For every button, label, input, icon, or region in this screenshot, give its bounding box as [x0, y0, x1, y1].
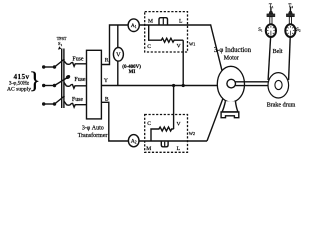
- svg-text:W2: W2: [189, 131, 195, 136]
- svg-text:A2: A2: [131, 139, 137, 145]
- svg-text:Belt: Belt: [273, 49, 283, 55]
- svg-text:Y: Y: [104, 78, 108, 84]
- svg-text:3-φ Induction: 3-φ Induction: [214, 47, 252, 54]
- svg-text:AC supply: AC supply: [7, 86, 31, 92]
- svg-text:R: R: [105, 58, 109, 64]
- svg-text:A1: A1: [131, 23, 137, 29]
- svg-text:}: }: [29, 68, 40, 93]
- svg-text:C: C: [147, 44, 151, 50]
- svg-text:S2: S2: [296, 28, 301, 33]
- svg-text:L: L: [179, 19, 183, 25]
- svg-text:MI: MI: [129, 70, 136, 75]
- svg-text:V: V: [177, 44, 181, 50]
- svg-text:M: M: [148, 19, 153, 25]
- svg-text:B: B: [105, 97, 109, 103]
- svg-text:S1: S1: [58, 41, 63, 47]
- svg-text:Fuse: Fuse: [74, 77, 86, 83]
- svg-text:V: V: [116, 52, 121, 59]
- svg-text:Motor: Motor: [224, 55, 239, 61]
- svg-text:Fuse: Fuse: [72, 97, 84, 103]
- svg-text:T2: T2: [288, 4, 293, 9]
- svg-text:Transformer: Transformer: [78, 132, 108, 139]
- svg-text:S1: S1: [258, 28, 263, 33]
- svg-text:Fuse: Fuse: [72, 57, 84, 63]
- svg-text:Brake drum: Brake drum: [267, 102, 296, 108]
- svg-text:M: M: [146, 146, 151, 152]
- svg-text:W1: W1: [189, 41, 195, 46]
- svg-text:C: C: [147, 121, 151, 127]
- svg-text:3-φ Auto: 3-φ Auto: [82, 125, 104, 131]
- svg-text:V: V: [177, 122, 181, 128]
- svg-text:L: L: [177, 146, 181, 152]
- svg-text:T1: T1: [269, 4, 274, 9]
